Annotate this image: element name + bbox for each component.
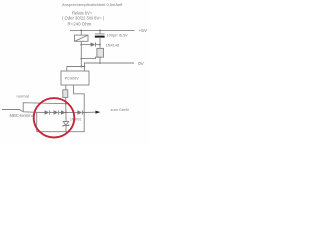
wire: J1 to J2 to J3 xyxy=(80,45,82,67)
node N1 xyxy=(65,112,67,114)
diode D2 xyxy=(54,110,61,114)
wire: pin 6 up xyxy=(66,67,68,72)
node: link/pin junction xyxy=(84,66,86,68)
node: output junction xyxy=(83,112,85,114)
svg-text:100µF /6,3V: 100µF /6,3V xyxy=(107,33,129,38)
wire: output with arrow xyxy=(84,111,95,113)
node J1 xyxy=(80,44,82,46)
node: R1/0V junction xyxy=(99,62,101,64)
node J3 xyxy=(80,66,82,68)
diode D5 (horizontal, freewheel) xyxy=(81,42,100,46)
svg-text:1N4148: 1N4148 xyxy=(106,43,120,48)
wire: capacitor to J4 to resistor R1 xyxy=(99,38,101,48)
wire: node J2 link to R1 bottom xyxy=(81,57,100,58)
wire: normal route xyxy=(23,103,66,112)
wire: bottom return loop xyxy=(37,112,84,132)
op-amp U1 PC900V optocoupler xyxy=(61,71,89,85)
wire: +5V rail to capacitor xyxy=(99,30,101,34)
svg-text:Ansprechempfindlichkeit 0,5mAe: Ansprechempfindlichkeit 0,5mAeff xyxy=(62,2,123,7)
node: normal-wire junction xyxy=(65,103,67,105)
wire: U1 pin to R2 xyxy=(65,85,67,90)
0V rail xyxy=(84,63,134,71)
wire: R2 down to node N1 xyxy=(65,98,67,113)
svg-text:normal: normal xyxy=(17,93,29,98)
svg-text:R=240 Ohm: R=240 Ohm xyxy=(68,21,92,26)
svg-text:MBC-terminal: MBC-terminal xyxy=(10,113,35,118)
svg-text:+5V: +5V xyxy=(139,28,148,34)
annotation: red circle xyxy=(34,98,75,137)
capacitor C1 100uF/6,3V (electrolytic) xyxy=(95,34,105,38)
node: rail/cap junction xyxy=(99,30,101,32)
wire: +5V to relay xyxy=(80,30,82,35)
wire: link line over IC xyxy=(67,66,85,68)
wire: resistor R1 to 0V rail xyxy=(99,57,101,63)
wire: U1 right pin to output line xyxy=(74,85,85,113)
svg-text:0V: 0V xyxy=(138,61,145,67)
node: rail/relay junction xyxy=(80,30,82,32)
wire: MBC input xyxy=(2,110,45,113)
node J2 xyxy=(80,58,82,60)
diode D4 xyxy=(77,110,84,114)
relay K1 coil xyxy=(75,35,89,41)
zener diode Z1 xyxy=(63,115,69,132)
svg-text:PC900V: PC900V xyxy=(65,76,80,80)
diode D1 xyxy=(45,110,54,114)
resistor R2 xyxy=(63,90,68,98)
diode D3 xyxy=(61,110,77,114)
wire: relay to node J1 xyxy=(80,41,82,44)
svg-text:zum Gerät: zum Gerät xyxy=(111,107,130,112)
svg-text:( Oder 30/22 5W 8V= ): ( Oder 30/22 5W 8V= ) xyxy=(62,16,105,21)
resistor R1 xyxy=(97,48,104,57)
node J4 xyxy=(99,44,101,46)
+5V rail xyxy=(70,29,135,31)
svg-text:1N4001: 1N4001 xyxy=(70,118,82,122)
